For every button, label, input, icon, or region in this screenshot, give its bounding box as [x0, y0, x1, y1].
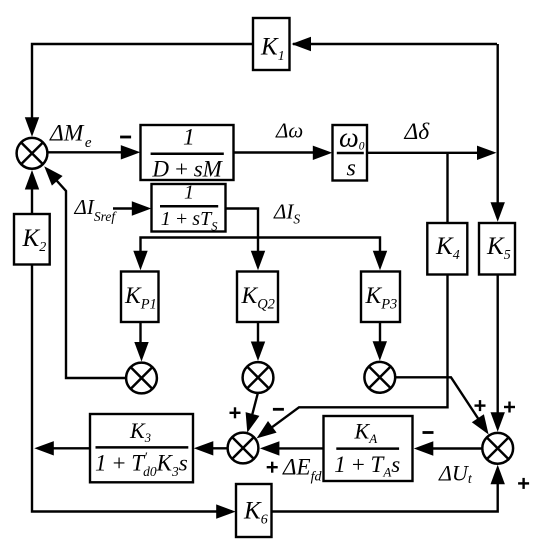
- wire KP3 to M3: [379, 322, 381, 345]
- wire right bus vertical: [497, 44, 499, 205]
- arrow into K6: [216, 504, 236, 518]
- arrow into mult M3: [373, 341, 387, 361]
- arrow into S1 bottom: [25, 170, 39, 190]
- arrow into block w0/s: [313, 146, 333, 160]
- wire S2 to K3: [210, 447, 228, 449]
- wire S1 to D+sM block: [47, 151, 127, 153]
- wire left bus K2-K6: [32, 265, 232, 512]
- svg-text:1: 1: [183, 125, 195, 151]
- wire delta to K4: [446, 153, 448, 223]
- wire M2 to S2: [250, 393, 258, 425]
- arrow into right bus node: [477, 146, 497, 160]
- wire K6 to S3: [272, 468, 498, 512]
- block KP3: [361, 272, 400, 323]
- arrow into S1 diag from M1: [44, 166, 62, 185]
- arrow into KQ2 top: [251, 251, 265, 270]
- arrow into S3 from K6: [491, 465, 505, 485]
- block KP1: [121, 272, 159, 323]
- block K1: [253, 18, 290, 70]
- arrow into K5 top: [491, 202, 505, 222]
- fraction bar of 1/(1+sTs): [160, 205, 218, 208]
- arrow into K1: [292, 37, 312, 51]
- arrow into left bus from K3: [34, 441, 54, 455]
- minus sign at S2 from K4: [273, 408, 284, 411]
- block 1/(1+sTs): [152, 184, 226, 232]
- svg-text:Δω: Δω: [275, 118, 303, 142]
- summing junction S2: [228, 433, 259, 464]
- wire M1 feedback to S1: [48, 171, 127, 378]
- arrow into S2 from M2: [246, 412, 260, 433]
- block K2: [14, 214, 50, 265]
- summing junction S1: [17, 138, 48, 169]
- fraction bar of K3 block: [96, 446, 189, 449]
- wire top feedback left segment: [32, 44, 253, 122]
- wire KA to S2: [276, 447, 324, 449]
- arrow into KP1 top: [133, 251, 147, 270]
- svg-text:D + sM: D + sM: [151, 156, 223, 181]
- wire K3 output: [50, 447, 90, 449]
- plus sign at S3 from M3: [475, 404, 486, 406]
- svg-text:1: 1: [184, 182, 194, 204]
- minus sign at D+sM input: [120, 136, 131, 139]
- wire KQ2 to M2: [257, 322, 259, 345]
- block K6: [236, 484, 272, 537]
- wire w0/s to right bus: [367, 152, 483, 154]
- multiplier M1: [126, 363, 157, 394]
- arrow into KP3 top: [373, 251, 387, 270]
- arrow into mult M2: [251, 342, 265, 362]
- fraction bar of KA block: [336, 447, 399, 450]
- wire K2 to S1: [31, 185, 33, 214]
- wire K5 to S3: [497, 275, 499, 415]
- wire M3 to S3: [396, 377, 480, 421]
- arrow into S3 from M3: [472, 414, 489, 434]
- svg-text:s: s: [347, 156, 356, 182]
- wire KP1 to M1: [139, 322, 141, 345]
- block K4: [427, 223, 467, 275]
- summing junction S3: [482, 433, 513, 464]
- svg-text:Δδ: Δδ: [404, 119, 431, 145]
- block K5: [479, 223, 515, 275]
- plus sign at dEfd: [267, 466, 278, 468]
- plus sign at S2 from M2: [230, 412, 241, 414]
- block 1/(D+sM): [141, 125, 234, 180]
- svg-text:1 + sTS: 1 + sTS: [161, 208, 218, 234]
- wire distribution bus: [141, 238, 381, 256]
- arrow into S3 from K5: [491, 412, 505, 432]
- fraction bar of 1/(D+sM): [151, 153, 224, 156]
- multiplier M3: [364, 362, 395, 393]
- multiplier M2: [243, 362, 274, 393]
- arrow into S2 from K4: [257, 421, 277, 438]
- plus sign at S3 from K5: [504, 406, 515, 408]
- arrow into block 1/(1+sTs): [132, 201, 152, 215]
- arrow into block 1/(D+sM): [121, 145, 141, 159]
- svg-text:1 + TAs: 1 + TAs: [334, 452, 400, 480]
- block KA/(1+TAs): [324, 416, 413, 481]
- arrow into S2 right: [260, 441, 280, 455]
- block KQ2: [237, 272, 278, 323]
- arrow into sum S1 top: [25, 117, 39, 137]
- wire dISref input: [113, 207, 138, 209]
- arrow into mult M1: [134, 342, 148, 362]
- minus sign at KA input: [423, 431, 434, 434]
- plus sign at S3 from K6: [518, 482, 529, 484]
- fraction bar of w0/s: [337, 152, 364, 155]
- block K3/(1+T'd0K3s): [90, 414, 193, 482]
- wire S3 to KA: [430, 447, 482, 449]
- arrow into K3 block: [194, 441, 214, 455]
- arrow into KA block: [414, 441, 434, 455]
- wire K4 to S2: [268, 275, 448, 431]
- wire top feedback right segment: [293, 43, 497, 45]
- wire D+sM to w0/s: [234, 151, 321, 153]
- block w0/s: [333, 125, 368, 181]
- svg-text:ΔUt: ΔUt: [438, 461, 473, 488]
- wire Ts block output: [226, 209, 259, 256]
